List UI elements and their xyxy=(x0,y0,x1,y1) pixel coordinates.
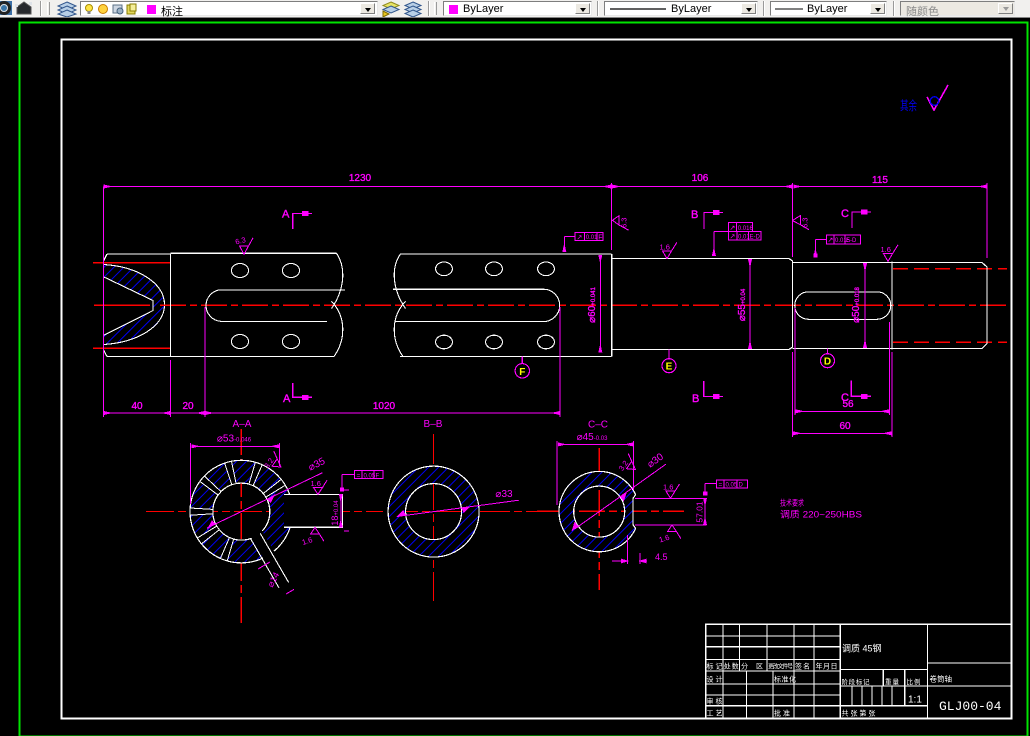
svg-text:⌀30: ⌀30 xyxy=(645,451,666,470)
A-A tolerance frame = 0.05 F xyxy=(341,471,383,492)
title block right column lines xyxy=(928,624,1012,718)
section cut mark B bottom xyxy=(704,381,723,397)
datum flag D xyxy=(827,349,829,354)
svg-text:审核: 审核 xyxy=(707,697,723,706)
A-A spline groove 180deg xyxy=(190,508,213,515)
C-C roughness 1.6 upper xyxy=(666,484,680,498)
svg-text:年月日: 年月日 xyxy=(816,661,838,670)
svg-text:0.05: 0.05 xyxy=(364,473,376,479)
toolbar icon: layer previous xyxy=(403,1,423,17)
svg-text:D: D xyxy=(739,483,744,489)
layer combo xyxy=(80,1,378,16)
svg-text:106: 106 xyxy=(692,173,709,184)
svg-text:调质 220~250HBS: 调质 220~250HBS xyxy=(780,509,862,520)
A-A spline groove 250deg xyxy=(220,538,233,561)
svg-text:F: F xyxy=(376,473,380,479)
svg-text:E: E xyxy=(666,362,673,373)
svg-text:签名: 签名 xyxy=(795,661,810,670)
svg-text:3.2: 3.2 xyxy=(617,459,630,473)
A-A hatched annulus xyxy=(190,460,293,563)
svg-text:B–B: B–B xyxy=(424,419,443,430)
svg-text:C–C: C–C xyxy=(588,420,608,431)
slot1 hole bottom A xyxy=(231,335,248,349)
svg-text:更改文件号: 更改文件号 xyxy=(768,662,793,670)
dim phi60 vertical xyxy=(599,255,601,352)
thread end right edge xyxy=(986,267,988,344)
C-C keyway vertical dim xyxy=(704,498,706,525)
svg-text:B: B xyxy=(692,393,699,405)
svg-text:调质 45钢: 调质 45钢 xyxy=(842,643,882,654)
threaded end outline xyxy=(892,263,987,349)
svg-text:B: B xyxy=(691,209,698,221)
phi55 section outline xyxy=(612,259,793,350)
body segment2 top edge xyxy=(401,253,612,255)
svg-text:C: C xyxy=(841,208,849,220)
section cut mark B top xyxy=(704,213,723,230)
red dashed thread crest top xyxy=(893,268,1007,270)
svg-text:1.6: 1.6 xyxy=(881,245,891,254)
svg-text:6.3: 6.3 xyxy=(801,218,810,228)
svg-text:⌀45-0.03: ⌀45-0.03 xyxy=(577,432,608,443)
svg-text:↗: ↗ xyxy=(828,237,834,244)
A-A spline groove 215deg xyxy=(197,526,219,544)
svg-text:1.6: 1.6 xyxy=(658,533,671,545)
svg-text:A–A: A–A xyxy=(233,419,252,430)
svg-text:分 区: 分 区 xyxy=(741,661,763,670)
A-A radial hole phi14 edges xyxy=(251,534,289,588)
dim 60 line xyxy=(794,432,892,434)
keyed section right shoulder xyxy=(891,262,893,350)
slot2 hole top B xyxy=(486,262,503,276)
A-A key section rectangle xyxy=(284,494,342,527)
svg-text:115: 115 xyxy=(872,175,888,186)
C-C dim 4.5 xyxy=(612,535,647,564)
svg-text:⌀55+0.04: ⌀55+0.04 xyxy=(737,288,748,321)
lineweight combo xyxy=(770,1,887,16)
A-A dim 18 xyxy=(341,490,349,531)
svg-text:4.5: 4.5 xyxy=(655,552,668,562)
dim phi50 vertical xyxy=(864,264,866,348)
svg-text:F: F xyxy=(519,367,525,378)
svg-text:标准化: 标准化 xyxy=(774,675,796,684)
svg-text:1230: 1230 xyxy=(349,173,372,184)
A-A roughness 1.6 upper xyxy=(314,480,328,494)
A-A roughness 1.6 lower xyxy=(311,527,325,541)
svg-text:重量: 重量 xyxy=(885,678,900,686)
dim 20 line xyxy=(171,412,204,414)
svg-text:GLJ00-04: GLJ00-04 xyxy=(939,699,1002,714)
svg-text:卷筒轴: 卷筒轴 xyxy=(930,674,953,684)
keyway slot2 outline xyxy=(393,289,560,321)
svg-text:1:1: 1:1 xyxy=(908,695,922,706)
svg-text:工艺: 工艺 xyxy=(707,710,723,718)
dim 115 line xyxy=(794,186,987,188)
C-C roughness 3.2 xyxy=(617,453,641,477)
left end cap outline xyxy=(104,254,171,357)
title block middle column lines xyxy=(840,669,927,705)
svg-text:1.6: 1.6 xyxy=(301,535,314,547)
C-C tolerance frame = 0.05 D xyxy=(704,480,748,495)
svg-text:6.3: 6.3 xyxy=(234,235,246,246)
slot1 hole top A xyxy=(231,264,248,278)
svg-text:比例: 比例 xyxy=(907,677,921,686)
svg-text:1.6: 1.6 xyxy=(311,479,321,488)
svg-text:1020: 1020 xyxy=(373,401,396,412)
color combo xyxy=(443,1,592,16)
red line upper left cavity xyxy=(93,262,171,264)
C-C red crosshair horizontal xyxy=(537,510,684,512)
tolerance frame over phi50 keyseat xyxy=(814,235,860,257)
section cut mark A top xyxy=(293,214,312,230)
roughness 6.3 at phi50 shoulder xyxy=(792,215,809,229)
red line lower left cavity xyxy=(93,347,171,349)
svg-text:0.05: 0.05 xyxy=(726,483,738,489)
slot2 hole bottom C xyxy=(538,335,555,349)
tolerance frame perp 0.0 F over shoulder xyxy=(564,232,603,251)
section cut mark C top xyxy=(852,212,871,228)
datum flag E xyxy=(668,350,670,359)
svg-text:标记: 标记 xyxy=(707,661,723,670)
svg-text:D: D xyxy=(824,357,831,368)
plot style combo (disabled) xyxy=(900,1,1015,16)
svg-text:↗: ↗ xyxy=(577,234,583,241)
dim 106 line xyxy=(612,186,792,188)
hatched spherical cavity crescent xyxy=(104,265,165,345)
A-A phi14 dim ticks xyxy=(258,562,294,594)
A-A roughness 3.2 xyxy=(262,450,286,474)
top-right roughness checkmark symbol xyxy=(927,85,948,110)
svg-text:↗: ↗ xyxy=(730,234,736,241)
C-C red crosshair vertical xyxy=(598,448,600,590)
break squiggle segment1 right xyxy=(332,253,343,356)
B-B hatched annulus xyxy=(388,466,479,557)
svg-text:1.6: 1.6 xyxy=(663,483,673,492)
linetype combo xyxy=(604,1,758,16)
svg-text:1.6: 1.6 xyxy=(660,242,670,251)
title block outline xyxy=(706,624,1012,718)
tolerance frame 2-row over phi55 xyxy=(714,222,761,255)
roughness 6.3 at phi55 shoulder xyxy=(612,216,628,231)
top-right circle of roughness symbol xyxy=(930,97,938,105)
svg-text:处数: 处数 xyxy=(724,661,739,670)
svg-text:20: 20 xyxy=(182,401,194,412)
roughness 1.6 on phi55 xyxy=(660,242,678,258)
svg-text:↗: ↗ xyxy=(730,225,736,232)
svg-text:批准: 批准 xyxy=(774,709,790,718)
svg-text:57.01: 57.01 xyxy=(695,501,705,523)
section cut mark C bottom xyxy=(851,381,871,397)
svg-text:A: A xyxy=(283,393,291,405)
svg-text:0.01: 0.01 xyxy=(738,235,750,241)
svg-text:E-D: E-D xyxy=(846,238,857,244)
toolbar icon: layer properties gear xyxy=(0,1,12,16)
extension lines top dims xyxy=(104,183,988,258)
toolbar icon: dark layer state xyxy=(14,1,34,16)
A-A red crosshair horizontal xyxy=(146,511,383,513)
svg-text:阶段标记: 阶段标记 xyxy=(842,677,871,686)
svg-text:40: 40 xyxy=(131,401,143,412)
A-A dim phi53 xyxy=(191,443,280,504)
datum flag F xyxy=(521,357,523,364)
svg-text:⌀53-0.046: ⌀53-0.046 xyxy=(217,434,252,445)
A-A spline groove 105deg xyxy=(225,461,237,485)
section cut mark A bottom xyxy=(293,383,312,397)
svg-text:=: = xyxy=(719,482,723,489)
red dashed thread crest bottom xyxy=(893,341,1007,343)
extension lines 56/60 xyxy=(793,308,892,437)
extension lines bottom dims xyxy=(104,250,561,417)
svg-text:60: 60 xyxy=(839,421,851,432)
svg-text:技术要求: 技术要求 xyxy=(780,498,804,508)
svg-text:共 张 第 张: 共 张 第 张 xyxy=(842,709,876,718)
A-A red crosshair vertical xyxy=(240,429,242,625)
C-C dim phi45 xyxy=(557,441,634,505)
slot2 hole top C xyxy=(538,262,555,276)
svg-text:E-D: E-D xyxy=(750,235,761,241)
body segment2 bottom edge xyxy=(400,356,612,358)
svg-text:设计: 设计 xyxy=(707,675,723,684)
svg-text:=: = xyxy=(357,472,361,479)
dim 56 line xyxy=(796,410,889,412)
slot2 hole bottom A xyxy=(436,335,453,349)
red centerline of shaft xyxy=(94,304,150,306)
svg-text:F: F xyxy=(598,235,602,242)
svg-text:0.01: 0.01 xyxy=(586,235,598,241)
phi55 right shoulder face xyxy=(792,261,794,347)
bottom dim line 40/20/1020 xyxy=(104,412,170,414)
keyway slot1 outline xyxy=(206,290,345,322)
dim 1230 line xyxy=(104,186,611,188)
svg-text:A: A xyxy=(282,209,290,221)
title block left grid horizontals xyxy=(706,636,840,706)
A-A radial hole phi14 black fill xyxy=(249,528,291,588)
slot2 hole bottom B xyxy=(486,335,503,349)
B-B red crosshair horizontal xyxy=(388,511,555,513)
title block left grid verticals xyxy=(723,624,840,718)
application toolbar xyxy=(0,0,1030,18)
roughness 1.6 on thread xyxy=(881,245,899,261)
slot1 hole top B xyxy=(282,264,299,278)
C-C dim phi30 leader xyxy=(575,464,666,529)
C-C roughness 1.6 lower xyxy=(668,525,682,539)
B-B dim phi33 leader xyxy=(398,500,519,516)
C-C keyway extension lines xyxy=(635,498,706,525)
C-C hatched annulus with keyway flat xyxy=(559,471,636,551)
svg-text:⌀35: ⌀35 xyxy=(307,456,328,474)
dim 1020 line xyxy=(206,412,560,414)
body segment1 top edge xyxy=(171,252,337,254)
slot2 hole top A xyxy=(436,262,453,276)
roughness 6.3 on segment1 xyxy=(234,235,253,254)
dim phi55 vertical xyxy=(749,260,751,349)
break squiggle segment2 left xyxy=(394,254,405,357)
slot1 hole bottom B xyxy=(282,335,299,349)
svg-text:0.016: 0.016 xyxy=(738,226,754,232)
svg-text:⌀33: ⌀33 xyxy=(495,489,513,500)
svg-text:6.3: 6.3 xyxy=(620,218,629,228)
A-A spline groove 140deg xyxy=(200,476,221,495)
svg-text:C: C xyxy=(841,392,849,404)
B-B red crosshair vertical xyxy=(433,434,435,601)
shoulder face at end of body xyxy=(611,254,613,357)
toolbar icon: layers stack xyxy=(56,1,78,17)
phi50 keyed section outline xyxy=(793,263,892,349)
A-A spline groove 35deg xyxy=(263,479,285,497)
A-A dim phi35 leader xyxy=(207,473,323,528)
toolbar icon: make layer current xyxy=(381,1,401,17)
svg-text:其余: 其余 xyxy=(900,98,917,113)
keyway slot3 stadium xyxy=(795,292,891,320)
A-A spline groove 70deg xyxy=(249,462,262,485)
body segment1 bottom edge xyxy=(171,356,335,358)
